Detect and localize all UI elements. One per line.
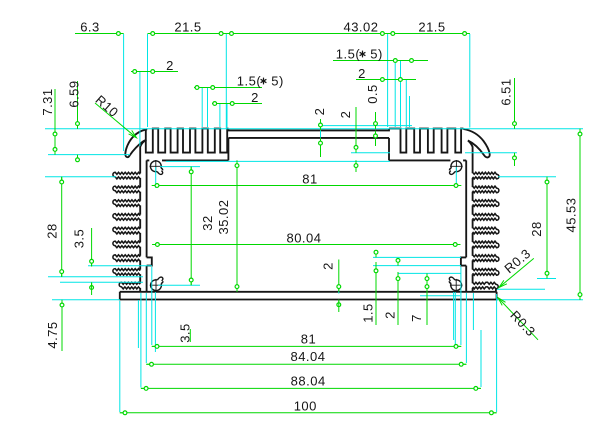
left heatsink fins (9 serrated) bbox=[113, 172, 140, 291]
right fin-to-plate edge bbox=[495, 288, 497, 292]
left horn (R10 curved lip) bbox=[125, 129, 147, 157]
right wall inner face with PCB rail tab bbox=[461, 160, 466, 291]
dim 0.5 (panel step) bbox=[365, 84, 380, 146]
svg-text:35.02: 35.02 bbox=[216, 199, 231, 234]
centre top panel (outer surface, 0.5 steps, inner surface) bbox=[228, 129, 389, 138]
left top comb fins bbox=[146, 129, 229, 153]
inner ceiling under left comb bbox=[147, 159, 229, 161]
top-left screw boss bbox=[150, 160, 163, 174]
bottom-right screw boss bbox=[449, 277, 462, 291]
left wall outer face bbox=[140, 140, 146, 173]
dim 81 (bottom) bbox=[152, 331, 461, 348]
right horn (curved lip) bbox=[463, 129, 489, 157]
svg-text:5): 5) bbox=[370, 46, 383, 61]
svg-text:2: 2 bbox=[358, 66, 366, 81]
svg-text:0.5: 0.5 bbox=[365, 84, 380, 104]
dim 45.53 (total height) bbox=[564, 129, 582, 300]
svg-text:88.04: 88.04 bbox=[291, 373, 326, 388]
dim 81 (between rails, inner) bbox=[152, 172, 461, 188]
svg-text:6.59: 6.59 bbox=[67, 80, 82, 107]
dim 2 (panel thickness) bbox=[312, 108, 327, 157]
svg-text:1.5(: 1.5( bbox=[237, 73, 262, 88]
dim 28 (left fins span) bbox=[45, 177, 64, 277]
leader R0.3 (lower, plate corner) bbox=[498, 298, 539, 340]
svg-text:7: 7 bbox=[409, 314, 424, 322]
dim 2 (right comb tooth) bbox=[356, 66, 416, 82]
dim 6.3 (top left overhang) bbox=[75, 20, 124, 36]
svg-text:3.5: 3.5 bbox=[178, 323, 193, 343]
top-right screw boss bbox=[449, 160, 462, 174]
dim 1.5 (rail thickness) bbox=[361, 250, 378, 325]
svg-text:100: 100 bbox=[294, 398, 317, 413]
svg-text:45.53: 45.53 bbox=[564, 197, 579, 232]
dim 2 (rail to boss) bbox=[383, 258, 400, 325]
svg-text:84.04: 84.04 bbox=[290, 349, 325, 364]
svg-text:32: 32 bbox=[200, 215, 215, 230]
svg-text:6.3: 6.3 bbox=[80, 20, 100, 35]
dim 2 (comb base wall) bbox=[338, 107, 358, 172]
dim 3.5 (left, fin area) bbox=[72, 228, 94, 295]
svg-text:1.5: 1.5 bbox=[361, 303, 376, 323]
dim 1.5(*5) (left comb teeth) bbox=[194, 73, 284, 89]
svg-text:2: 2 bbox=[166, 58, 174, 73]
svg-text:1.5(: 1.5( bbox=[336, 46, 361, 61]
svg-text:2: 2 bbox=[251, 90, 259, 105]
dim 80.04 (between rails) bbox=[152, 231, 460, 247]
svg-text:5): 5) bbox=[271, 73, 284, 88]
dim 2 (plate thickness) bbox=[321, 260, 341, 313]
left wall inner face with PCB rail tab bbox=[147, 160, 152, 291]
svg-text:28: 28 bbox=[529, 221, 544, 236]
dim 28 (right fins span) bbox=[529, 177, 549, 279]
inner ceiling under right comb bbox=[389, 159, 466, 161]
svg-text:81: 81 bbox=[302, 172, 317, 187]
svg-text:43.02: 43.02 bbox=[343, 20, 378, 35]
leader R10 (horn radius) bbox=[93, 92, 137, 138]
right top comb fins bbox=[389, 129, 463, 153]
dim 6.51 (right horn depth) bbox=[499, 78, 517, 166]
panel step verticals to inner ceiling bbox=[228, 138, 389, 161]
svg-text:6.51: 6.51 bbox=[499, 78, 514, 105]
svg-text:2: 2 bbox=[383, 311, 398, 319]
svg-text:3.5: 3.5 bbox=[72, 229, 87, 249]
dim 6.59 bbox=[67, 80, 82, 161]
dim 32 (boss centres) bbox=[189, 167, 215, 286]
dim 88.04 bbox=[141, 373, 481, 390]
dim 21.5 (left comb) bbox=[148, 20, 227, 36]
dim 1.5(*5) (right comb slots) bbox=[333, 46, 428, 62]
cyan extension lines bbox=[45, 34, 583, 412]
dim 3.5 (bottom left) bbox=[178, 323, 193, 343]
svg-text:28: 28 bbox=[45, 223, 60, 238]
right wall outer face bbox=[468, 141, 473, 174]
dim 100 (overall width) bbox=[120, 398, 497, 414]
svg-text:21.5: 21.5 bbox=[418, 20, 445, 35]
svg-text:7.31: 7.31 bbox=[40, 88, 55, 115]
svg-text:2: 2 bbox=[321, 262, 336, 270]
svg-text:4.75: 4.75 bbox=[45, 321, 60, 348]
dim 21.5 (right comb) bbox=[388, 20, 470, 36]
leader R0.3 (upper, plate step corner) bbox=[499, 246, 534, 288]
dim 7 bbox=[409, 273, 429, 325]
dim 84.04 (inner width) bbox=[146, 349, 466, 366]
svg-text:2: 2 bbox=[338, 111, 353, 119]
bottom-left screw boss bbox=[150, 277, 163, 291]
dim 43.02 (centre panel) bbox=[226, 20, 387, 36]
svg-text:2: 2 bbox=[312, 108, 327, 116]
dim 2 (left comb slot) bbox=[212, 90, 262, 106]
dim 2 (left wall thickness) bbox=[131, 58, 178, 74]
dim 4.75 (plate drop) bbox=[45, 300, 64, 351]
svg-text:81: 81 bbox=[301, 331, 316, 346]
dim 35.02 (inner height) bbox=[216, 160, 239, 291]
bottom plate bbox=[120, 292, 497, 300]
dim 7.31 (horn depth) bbox=[40, 88, 57, 154]
svg-text:21.5: 21.5 bbox=[174, 20, 201, 35]
svg-text:80.04: 80.04 bbox=[286, 231, 321, 246]
right heatsink fins (9 serrated) bbox=[473, 172, 499, 291]
